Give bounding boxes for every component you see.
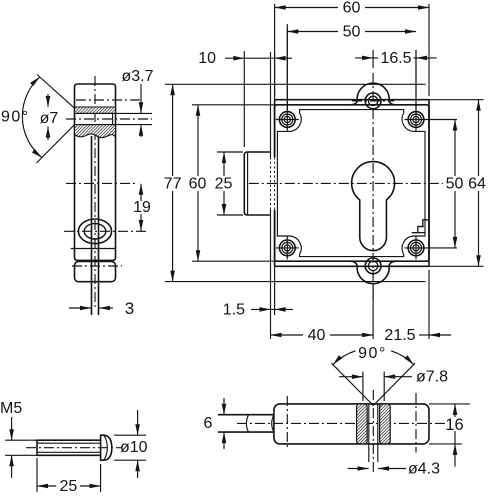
side view: bottom tab profile (75, 262, 116, 282)
front view: euro profile keyhole (352, 162, 395, 251)
front view: faceplate back edge (274, 84, 276, 99)
side view: oval hole outer (78, 219, 111, 244)
front view: faceplate front edge (270, 84, 272, 157)
side view: oval hole centerline (64, 230, 147, 232)
side view: hatched section below hole (wavy break bottom) (75, 125, 116, 138)
bottom view: screw hole centerline left (286, 396, 288, 450)
front view: base top extension to the right (429, 99, 484, 101)
dimension 50 (hole spacing top) (286, 24, 288, 110)
front view: top-right screw lug and hole (408, 112, 424, 128)
svg-text:ø7.8: ø7.8 (416, 369, 448, 386)
dimension 16.5 (centre to hole) (372, 50, 374, 68)
bottom view: body outline (274, 404, 429, 444)
bottom view: hole edges (o4.3) (368, 404, 370, 462)
dimension 25 (screw length) (36, 458, 38, 492)
svg-text:50: 50 (446, 176, 464, 193)
dimension 40 (270, 282, 272, 339)
dimension 60 (top width) (274, 4, 276, 96)
side view: internal line above bottom (71, 248, 117, 250)
front view: top-right hole crosshair (405, 119, 458, 121)
dimension 64 (case height) (478, 100, 480, 176)
dimension 3 (plate thickness) (69, 307, 91, 309)
front view: bottom-left hole crosshair (276, 247, 299, 249)
side view: hole centerline (66, 118, 152, 120)
svg-text:ø10: ø10 (120, 439, 148, 456)
dimension 60 (cover height) (197, 105, 199, 176)
svg-text:19: 19 (133, 199, 151, 216)
svg-text:25: 25 (215, 176, 233, 193)
svg-text:ø7: ø7 (40, 110, 59, 127)
svg-text:16.5: 16.5 (380, 50, 411, 67)
bottom view: screw hole centerline right (415, 393, 417, 453)
dimension 1.5 (faceplate thickness) (251, 308, 293, 310)
front view: top mounting tab (350, 83, 396, 105)
dimension o7.8 (countersink) (362, 372, 364, 402)
front view: base plate top edge (275, 99, 429, 101)
side view: o3.7 dimension (140, 84, 142, 113)
bottom view: latch curves (246, 415, 248, 432)
front view: top tab hole centerline (352, 100, 394, 102)
side view: countersink flare upper line (37, 75, 75, 109)
dimension 19 (140, 184, 142, 201)
front view: cover top extension to the left (192, 104, 275, 106)
svg-text:90°: 90° (1, 108, 30, 125)
svg-text:10: 10 (198, 50, 216, 67)
bottom view: latch bolt side (218, 414, 274, 416)
svg-text:16: 16 (445, 416, 463, 434)
svg-text:60: 60 (343, 0, 361, 17)
front view: bottom-left screw lug and hole (279, 240, 295, 256)
svg-text:21.5: 21.5 (384, 327, 415, 344)
side view: vertical centerline (94, 76, 96, 310)
front view: bottom-right hole crosshair (405, 247, 458, 249)
bottom view: horizontal centerline (237, 422, 445, 424)
front view: overall-height projection line top (165, 83, 426, 85)
front view: base plate side edges (274, 100, 276, 157)
screw: shaft outline (37, 440, 101, 455)
svg-text:1.5: 1.5 (223, 301, 245, 318)
bottom view: 90 deg arc with arrows (333, 351, 356, 365)
dimension M5 (5, 439, 37, 441)
front view: horizontal centerline (249, 182, 443, 184)
screw: head outline (101, 435, 112, 460)
svg-text:ø4.3: ø4.3 (408, 461, 440, 478)
svg-text:64: 64 (468, 176, 486, 193)
side view: case profile outline (75, 84, 116, 247)
dimension 50 (hole spacing right) (454, 120, 456, 177)
front view: bottom-right screw lug and hole (408, 240, 424, 256)
front view: cover bottom extension to the left (192, 260, 275, 262)
front view: cylinder clip detail (412, 220, 429, 233)
front view: bottom tab hole (365, 258, 381, 274)
front view: top-left screw lug and hole (279, 112, 295, 128)
side view: oval hole inner (84, 224, 106, 239)
front view: top-left hole crosshair (276, 119, 299, 121)
dimension o10 (head diameter) (114, 434, 146, 436)
side view: countersink flare lower line (37, 125, 75, 163)
side view: hatched section above hole (75, 107, 116, 113)
screw: thread root lines (37, 442, 101, 444)
bottom view: hole vertical centerline (372, 390, 374, 475)
front view: base plate bottom edge (275, 265, 429, 267)
side view: hole end wall (112, 113, 114, 124)
svg-text:ø3.7: ø3.7 (121, 68, 153, 85)
bottom view: hatched wall right (380, 404, 391, 444)
side view: bottom tab centerline (72, 265, 122, 267)
svg-text:50: 50 (343, 24, 361, 41)
dimension 25 (latch height) (217, 151, 243, 153)
dimension o4.3 (hole) (348, 468, 369, 470)
screw: centerline (26, 447, 122, 449)
bottom view: countersink V lines (332, 363, 374, 405)
front view: vertical centerline (372, 73, 374, 300)
side view: keyhole centerline through profile (66, 182, 137, 184)
dimension 16 (case depth) (429, 403, 470, 405)
front view: top tab hole (365, 93, 381, 109)
front view: inner contour with lug wraps (277, 110, 425, 257)
side view: rear plate edges (3 mm) (91, 136, 93, 315)
svg-text:3: 3 (125, 299, 134, 318)
dimension 6 (latch thickness) (223, 398, 225, 415)
front view: overall-height projection line bottom (165, 281, 426, 283)
svg-text:M5: M5 (0, 400, 22, 417)
side view: 90 deg arc with arrows (22, 77, 42, 158)
front view: base bottom extension to the right (429, 265, 484, 267)
side view: o7 dimension (47, 94, 49, 107)
front view: latch bolt (244, 152, 271, 215)
dimension 10 (latch protrusion) (243, 51, 245, 147)
dimension 21.5 (428, 270, 430, 339)
svg-text:77: 77 (164, 176, 182, 193)
svg-text:6: 6 (204, 415, 213, 432)
screw: head dome line (104, 435, 108, 460)
front view: bottom mounting tab (350, 261, 396, 283)
bottom view: hatched wall left (357, 404, 368, 444)
svg-text:60: 60 (189, 176, 207, 193)
side view: screw-hole upper centerline (76, 99, 140, 101)
svg-text:90°: 90° (358, 345, 387, 362)
side view: hole edge lines (o3.7 extension) (75, 112, 153, 114)
svg-text:25: 25 (60, 478, 78, 495)
dimension 77 (overall height) (172, 84, 174, 176)
front view: cover outline (275, 105, 429, 261)
svg-text:40: 40 (308, 327, 326, 344)
